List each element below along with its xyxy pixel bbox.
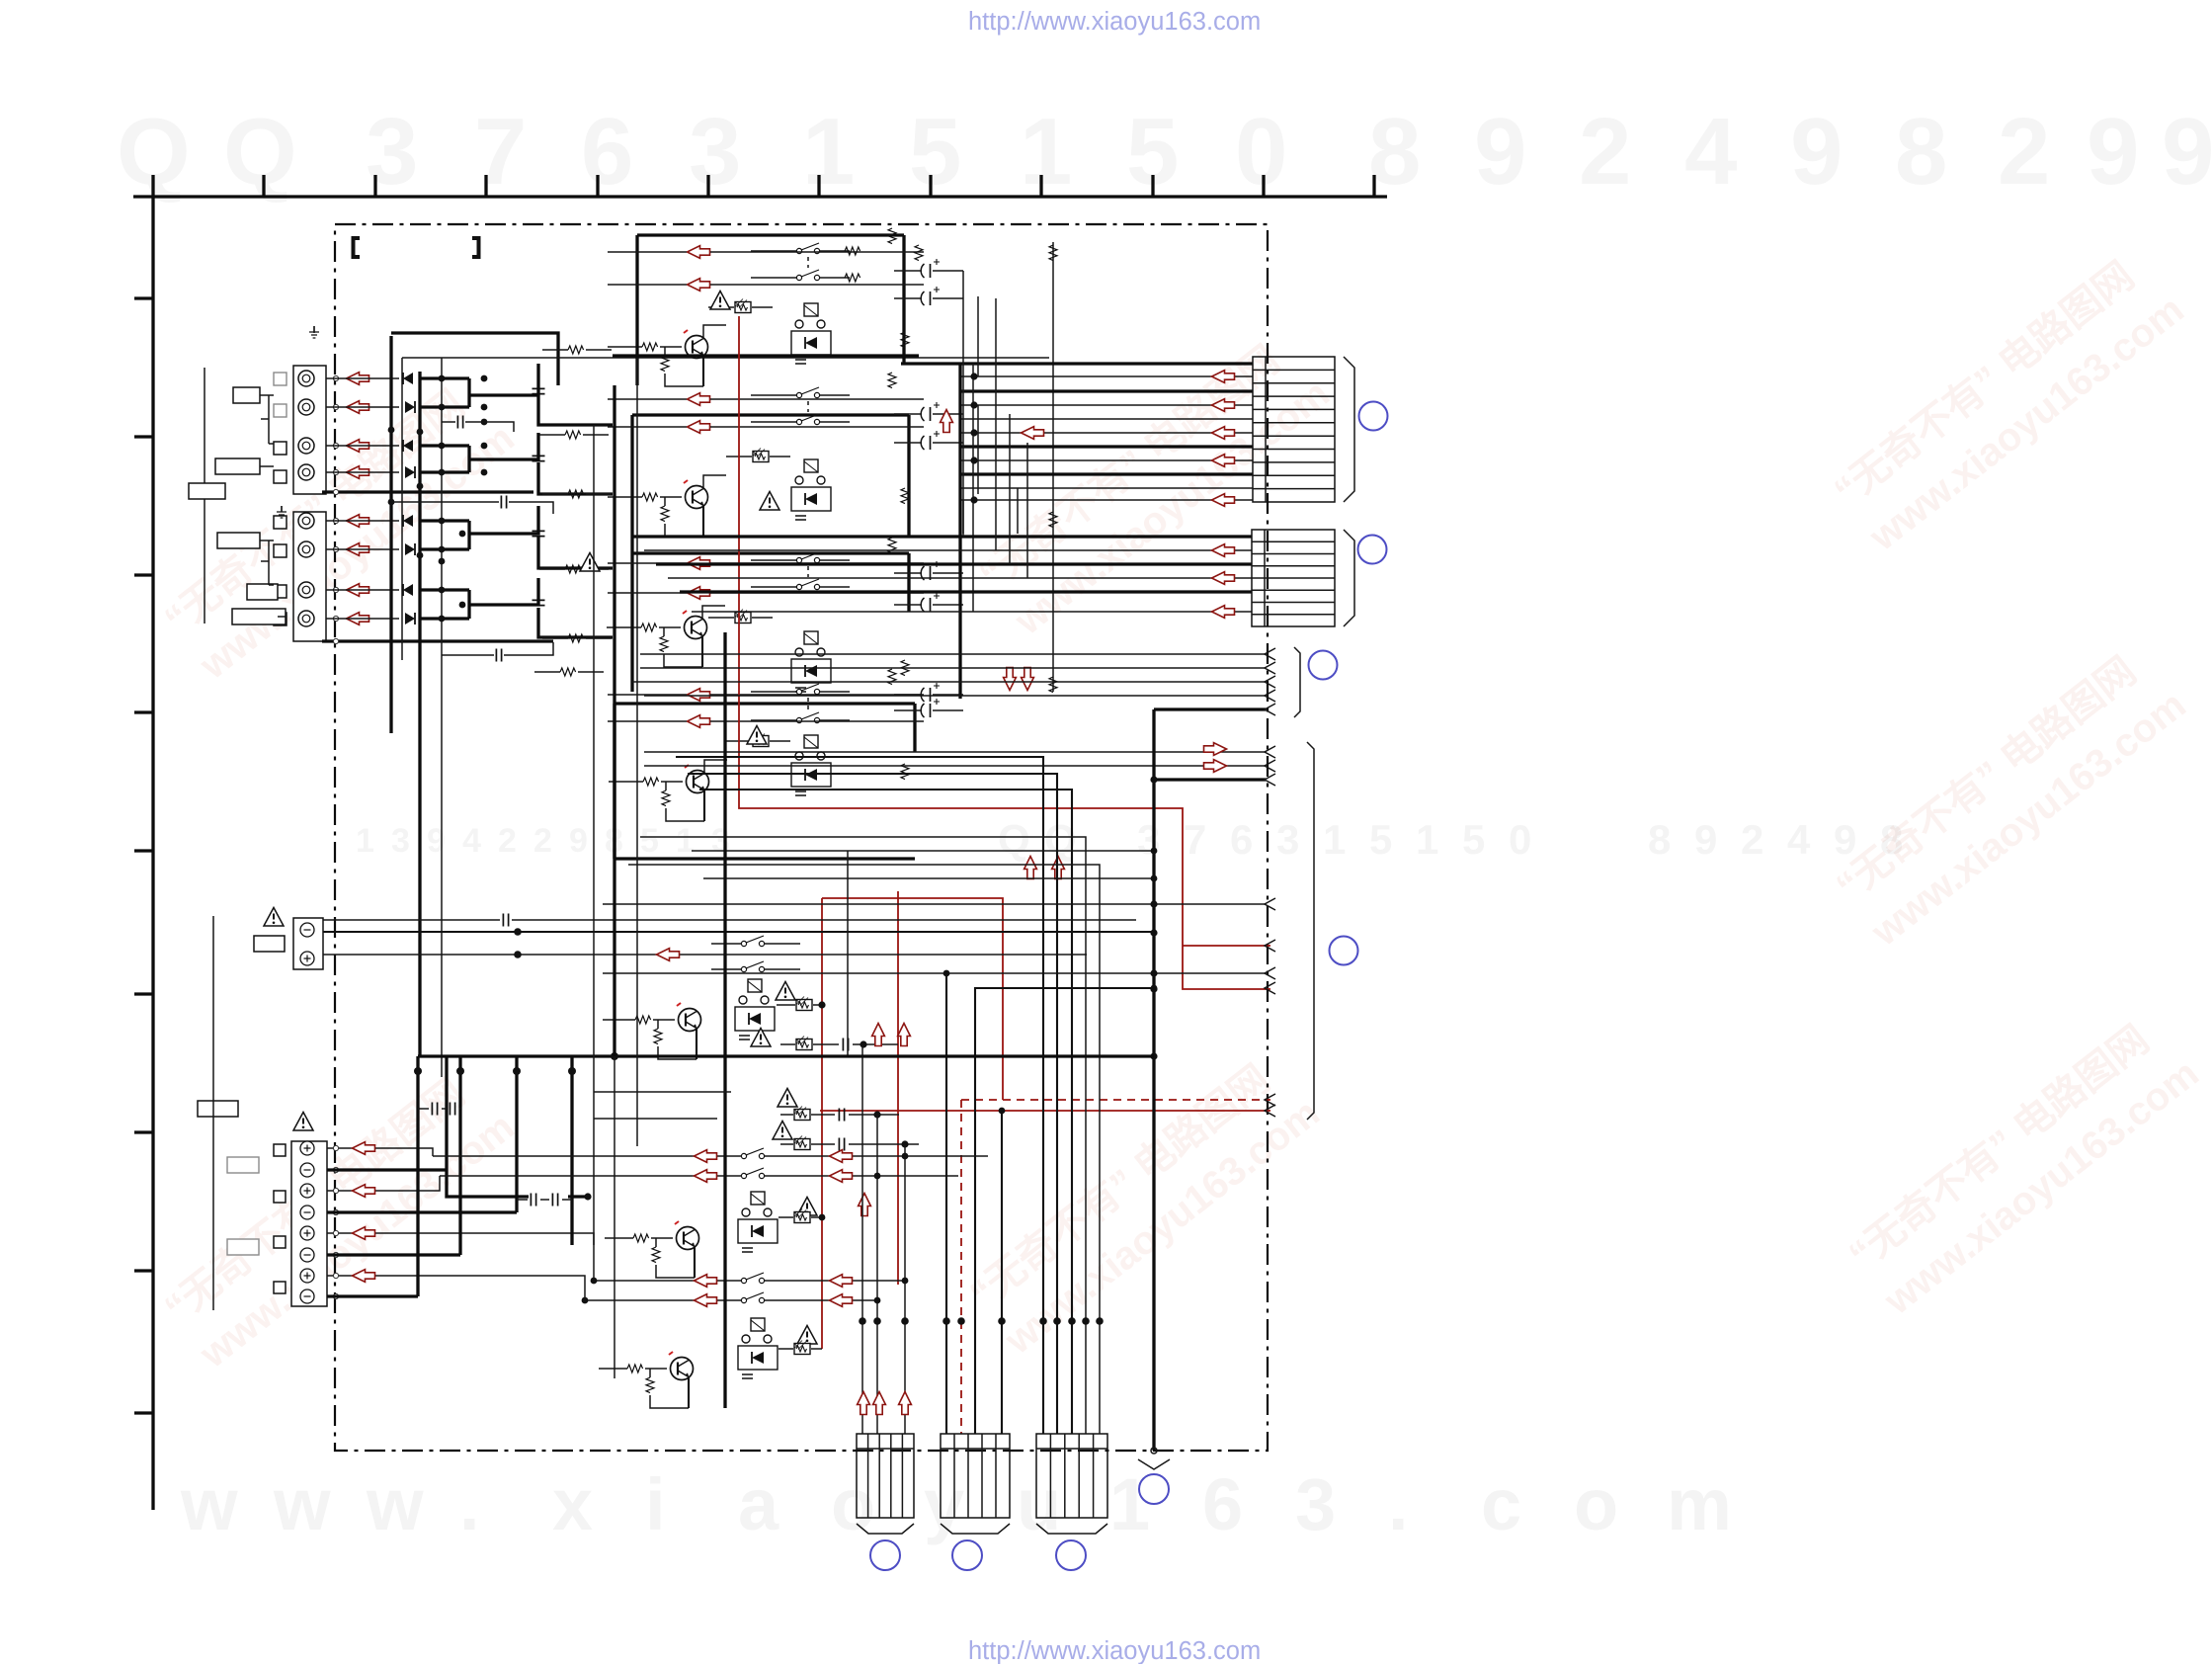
switch S11	[741, 1148, 764, 1159]
up arrows A	[872, 1024, 885, 1046]
gray pin squares lower	[274, 1144, 286, 1293]
jack J2-3	[298, 582, 314, 598]
svg-text:2: 2	[533, 822, 552, 860]
red signal arrows cluster 3	[688, 557, 710, 570]
CN4 right arrows	[1204, 743, 1227, 756]
svg-text:9: 9	[1474, 99, 1526, 205]
wire: jack output horizontals	[326, 378, 399, 619]
CN2 bracket	[1344, 530, 1354, 626]
CN1 bracket	[1344, 357, 1354, 502]
CN4 arrowheads	[1265, 746, 1275, 1117]
svg-text:9: 9	[2087, 99, 2139, 205]
lower grid bus	[418, 1054, 1154, 1057]
svg-text:6: 6	[1202, 1463, 1243, 1545]
transistor Q5	[677, 1003, 701, 1032]
warning mid	[778, 1089, 797, 1108]
red signal arrows cluster 1	[688, 246, 710, 259]
bottom connector feeders group 1	[585, 1044, 905, 1434]
extra mid horizontals	[692, 851, 1154, 1056]
connector CN7 ribbon bottom	[1036, 1434, 1107, 1534]
svg-text:3: 3	[1276, 816, 1299, 863]
wires from J3	[323, 919, 1136, 921]
warning at RY5	[776, 982, 795, 1001]
center horizontals lower	[594, 1092, 731, 1119]
jack J2-4	[298, 611, 314, 626]
bus fan to CN1	[901, 364, 1253, 500]
up arrows above CN5	[858, 1392, 870, 1415]
dots on right bus	[1150, 776, 1157, 1059]
extra arrow mid fan	[1022, 427, 1044, 440]
left group line	[204, 368, 205, 624]
warning at J4	[293, 1113, 313, 1131]
connector CN1 ribbon	[1253, 357, 1335, 502]
bus fan to CN2	[632, 537, 1252, 612]
svg-text:1: 1	[1109, 1463, 1150, 1545]
board outline: dash-dot boundary of MAIN board	[335, 224, 1268, 1451]
svg-text:3: 3	[1137, 816, 1160, 863]
svg-text:5: 5	[1462, 816, 1485, 863]
junction dots on CN1 fan	[970, 373, 977, 503]
svg-text:5: 5	[1369, 816, 1392, 863]
red wire net R1	[739, 316, 1270, 989]
svg-text:1: 1	[802, 99, 855, 205]
up arrows B	[1024, 857, 1037, 879]
transistor Q1 with base resistor	[684, 330, 708, 359]
svg-text:4: 4	[1684, 99, 1737, 205]
input clamp diodes channel 3	[403, 515, 413, 527]
svg-text:1: 1	[1323, 816, 1346, 863]
wire: channel thick links	[420, 364, 613, 637]
svg-text:1: 1	[1416, 816, 1438, 863]
warning at J3	[264, 908, 284, 927]
resistors cluster 4	[888, 669, 896, 685]
svg-text:w: w	[180, 1463, 238, 1545]
svg-text:w: w	[273, 1463, 331, 1545]
svg-text:1: 1	[676, 822, 695, 860]
red arrows on CN1 fan	[1212, 371, 1235, 383]
warning at RY7	[797, 1326, 817, 1345]
connector J1 input jack panel (top pair group)	[293, 366, 326, 494]
input clamp diodes channel 2	[403, 440, 413, 452]
bus vertical fan feeder	[958, 364, 961, 699]
fusible at RY6	[794, 1209, 810, 1223]
jack J4-2	[300, 1163, 314, 1177]
bus vertical B1	[389, 336, 392, 733]
svg-text:8: 8	[1895, 99, 1947, 205]
jack J4-5	[300, 1226, 314, 1240]
label stubs	[260, 395, 287, 617]
polarized caps cluster 3	[921, 561, 940, 580]
svg-text:5: 5	[640, 822, 659, 860]
input clamp diodes channel 1	[403, 373, 413, 384]
jack J4-3	[300, 1184, 314, 1198]
svg-text:6: 6	[1230, 816, 1253, 863]
wire: top cluster frames	[614, 235, 915, 859]
ground at J1 top	[313, 326, 315, 333]
svg-text:i: i	[645, 1463, 666, 1545]
shield return wires	[322, 492, 553, 641]
svg-text:0: 0	[1509, 816, 1531, 863]
center long verticals	[614, 385, 725, 1408]
svg-text:0: 0	[1235, 99, 1287, 205]
red signal arrows cluster 2	[688, 393, 710, 406]
relay RY3	[791, 631, 831, 692]
svg-text:4: 4	[462, 822, 481, 860]
svg-text:1: 1	[356, 822, 374, 860]
svg-text:3: 3	[366, 99, 418, 205]
jack J2-2	[298, 541, 314, 557]
fusible+cap row3	[794, 1107, 810, 1121]
transistor Q7	[669, 1352, 694, 1380]
svg-text:3: 3	[391, 822, 410, 860]
polarized caps cluster 2	[921, 402, 940, 421]
connector J3 minus/plus pair	[293, 918, 323, 969]
label boxes at J4	[198, 1101, 238, 1117]
jack J1-4	[298, 464, 314, 480]
svg-text:8: 8	[1368, 99, 1421, 205]
resistors cluster 2	[888, 373, 896, 388]
ruler: top horizontal scale bar	[133, 175, 1387, 197]
relay RY6	[738, 1192, 778, 1252]
label box at J3	[254, 936, 285, 952]
lower vertical grid	[418, 1056, 572, 1296]
svg-text:3: 3	[1295, 1463, 1336, 1545]
svg-text:9: 9	[569, 822, 588, 860]
nested L bus wires	[628, 757, 1100, 1434]
red arrows at S11/S12	[695, 1150, 717, 1163]
svg-text:a: a	[738, 1463, 779, 1545]
fusible resistors top clusters	[735, 299, 751, 313]
switch S14	[741, 1292, 764, 1303]
chassis ground callout	[1151, 1448, 1157, 1454]
CN3 arrowheads	[1265, 648, 1275, 715]
polarized caps cluster 1	[921, 259, 940, 278]
red input arrows for J1/J2	[347, 373, 369, 385]
svg-text:9: 9	[2162, 99, 2212, 205]
watermark: pink diagonal stamps	[156, 242, 2207, 1376]
jack J1-1	[298, 371, 314, 386]
switch S7	[796, 684, 819, 695]
svg-text:5: 5	[909, 99, 961, 205]
mid caps between buses	[457, 416, 462, 429]
vertical feeders to fan	[963, 296, 1018, 534]
svg-text:x: x	[552, 1463, 593, 1545]
fusible+cap row4	[794, 1136, 810, 1150]
jack J4-6	[300, 1248, 314, 1262]
CN7 circle callout	[1056, 1540, 1086, 1570]
transistor Q3 with base resistor	[683, 611, 707, 639]
gray pin squares beside jacks	[274, 373, 287, 625]
jack J4-7	[300, 1269, 314, 1283]
svg-text:http://www.xiaoyu163.com: http://www.xiaoyu163.com	[968, 1637, 1261, 1664]
jack J4-8	[300, 1290, 314, 1303]
connector CN2 ribbon	[1252, 530, 1335, 626]
caps in lower grid	[432, 1103, 437, 1116]
thick step wires from J4 to buses	[327, 1056, 588, 1296]
svg-text:7: 7	[1184, 816, 1206, 863]
svg-text:c: c	[1481, 1463, 1521, 1545]
warning mid2	[773, 1122, 792, 1140]
resistors cluster 1	[888, 228, 896, 244]
switch S10	[741, 961, 764, 972]
jack J2-1	[298, 513, 314, 529]
switch S2	[796, 270, 819, 281]
CN4 bracket	[1307, 742, 1314, 1120]
svg-text:7: 7	[474, 99, 527, 205]
cluster up arrow	[941, 410, 953, 433]
label boxes beside jacks	[233, 387, 260, 403]
relay RY7	[738, 1318, 778, 1378]
bus vertical B2	[401, 358, 403, 660]
svg-text:3: 3	[711, 822, 730, 860]
svg-text:.: .	[459, 1463, 480, 1545]
left group line lower	[212, 916, 214, 1310]
CN3 bracket	[1294, 647, 1300, 717]
CN4 circle callout	[1330, 937, 1358, 965]
svg-text:w: w	[366, 1463, 424, 1545]
fusible+cap row2	[796, 1037, 812, 1050]
feeder vertical with resistors	[1052, 242, 1054, 692]
svg-text:3: 3	[689, 99, 741, 205]
switch S5	[796, 552, 819, 563]
connector J2 input jack panel (second pair group)	[293, 512, 326, 641]
relay RY2	[791, 459, 831, 520]
red arrows at J4	[353, 1142, 375, 1155]
svg-text:1: 1	[1020, 99, 1072, 205]
switch S13	[741, 1273, 764, 1284]
svg-text:2: 2	[1998, 99, 2050, 205]
red arrows feeder group 1	[830, 1275, 853, 1288]
bus vertical main right	[1152, 709, 1155, 1451]
connector J4 8-pin jack strip	[291, 1141, 327, 1306]
svg-text:9: 9	[1694, 816, 1717, 863]
resistor rows to the right of input network	[568, 346, 584, 354]
bus vertical B3	[418, 372, 421, 1056]
svg-text:9: 9	[427, 822, 446, 860]
CN5 circle callout	[870, 1540, 900, 1570]
jack J1-2	[298, 399, 314, 415]
CN3 circle callout	[1309, 651, 1338, 680]
red signal arrows cluster 4	[688, 689, 710, 702]
jack J4-1	[300, 1141, 314, 1155]
CN6 circle callout	[952, 1540, 982, 1570]
callout CN3 lines	[632, 654, 1266, 696]
svg-text:2: 2	[1741, 816, 1763, 863]
watermark: faint middle number rows	[356, 816, 1903, 863]
input clamp diodes channel 4	[403, 584, 413, 596]
relay RY4	[791, 735, 831, 795]
ground at J2 top	[281, 506, 283, 512]
svg-text:9: 9	[1790, 99, 1843, 205]
watermark: faint top QQ number row	[117, 99, 2212, 205]
board title brackets	[354, 238, 479, 257]
coupling caps column	[533, 388, 545, 393]
wires from J4 jacks	[327, 1148, 594, 1300]
up arrow mid low	[859, 1194, 871, 1216]
watermark: giant bottom www.xiaoyu163.com	[180, 1463, 1732, 1545]
red arrow on J3 plus line	[657, 949, 680, 961]
connector CN5 ribbon bottom	[857, 1434, 914, 1534]
resistors cluster 3	[888, 538, 896, 553]
warning triangles top clusters	[710, 291, 730, 310]
svg-text:.: .	[1388, 1463, 1409, 1545]
cluster1 bottom thick rail	[613, 354, 919, 357]
CN2 circle callout	[1358, 536, 1387, 564]
svg-text:4: 4	[1787, 816, 1811, 863]
vertical feeders caps to CN2 fan	[963, 271, 1027, 578]
callout CN4 lines	[644, 752, 1266, 766]
big down arrows pair	[1004, 668, 1017, 691]
ruler: left vertical scale bar	[134, 197, 153, 1510]
switch S8	[796, 712, 819, 723]
polarized caps cluster 4	[921, 683, 940, 702]
warning at RY6	[797, 1198, 817, 1216]
svg-text:http://www.xiaoyu163.com: http://www.xiaoyu163.com	[968, 8, 1261, 36]
svg-text:8: 8	[1648, 816, 1671, 863]
transistor Q6	[675, 1221, 699, 1250]
switch S4	[796, 414, 819, 425]
switch S1	[796, 243, 819, 254]
svg-text:2: 2	[498, 822, 517, 860]
svg-text:o: o	[1574, 1463, 1618, 1545]
relay RY5	[735, 979, 775, 1040]
jack J1-3	[298, 438, 314, 454]
svg-text:2: 2	[1579, 99, 1631, 205]
wire: top thick link with ground	[391, 333, 558, 385]
switch S9	[741, 936, 764, 947]
svg-text:Q: Q	[998, 816, 1030, 863]
dots row above connectors	[859, 1317, 1104, 1325]
switch S3	[796, 387, 819, 398]
transistor Q2 with base resistor	[684, 480, 708, 509]
svg-text:6: 6	[581, 99, 633, 205]
bus vertical B4	[441, 358, 443, 1077]
svg-text:Q: Q	[223, 99, 297, 205]
jack J4-4	[300, 1206, 314, 1219]
fusible resistor row1	[796, 997, 812, 1011]
red arrows on CN2 fan	[1212, 544, 1235, 557]
switch S12	[741, 1168, 764, 1179]
border pin circles J4	[333, 1145, 338, 1298]
border pin circles J1/J2	[333, 375, 338, 643]
transistor Q4 with base resistor	[685, 765, 709, 793]
svg-text:m: m	[1667, 1463, 1732, 1545]
relay RY1	[791, 303, 831, 364]
CN1 circle callout	[1359, 402, 1388, 431]
junction dots left area	[388, 375, 488, 623]
connector CN6 ribbon bottom	[941, 1434, 1010, 1534]
CN6 feeder corners	[945, 973, 947, 1434]
fusible at RY7	[794, 1341, 810, 1355]
switch S6	[796, 579, 819, 590]
